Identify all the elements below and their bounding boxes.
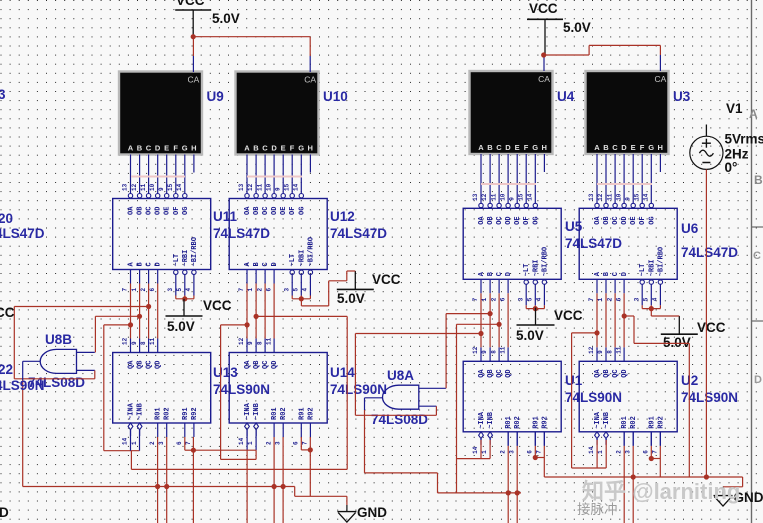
U14 pin 12 (QA)	[238, 337, 252, 369]
U11 pin 15 (OF)	[167, 183, 181, 215]
U6 pin 4 (~BI/RBO)	[652, 247, 666, 305]
U5 pin 9 (OE)	[508, 197, 522, 225]
U1 pin 3 (R02)	[508, 416, 522, 454]
U14 pin 14 (~INA)	[238, 402, 252, 445]
U12 pin 7 (A)	[238, 262, 252, 292]
junction U12 tie	[299, 296, 304, 301]
wire CA anode	[659, 45, 661, 55]
U5 pin 15 (OF)	[518, 193, 532, 225]
GND ground symbol	[337, 505, 387, 522]
svg-text:CA: CA	[654, 74, 666, 84]
svg-text:OA: OA	[244, 206, 252, 215]
U11 pin 10 (OD)	[149, 183, 163, 215]
U12 pin 3 (~LT)	[283, 254, 297, 296]
wire U1 R91/R92 to bus	[535, 432, 544, 477]
U14 pin 6 (R91)	[293, 407, 307, 445]
U13 pin 6 (R91)	[176, 407, 190, 445]
svg-text:E: E	[164, 144, 169, 153]
U12 pin 2 (C)	[256, 262, 270, 291]
wire QC net to U8B lower input	[14, 307, 148, 379]
U11 pin 4 (~BI/RBO)	[185, 237, 199, 295]
junction U14 QA column	[245, 322, 250, 327]
svg-text:10: 10	[265, 183, 272, 191]
svg-text:F: F	[173, 144, 178, 153]
U6 pin 14 (OG)	[643, 193, 657, 225]
U12 pin 1 (B)	[247, 262, 261, 292]
U8B output stub	[23, 360, 41, 362]
U11 pin 6 (D)	[149, 262, 163, 291]
svg-text:~BI/RBO: ~BI/RBO	[191, 237, 199, 266]
junction R91 U2	[649, 456, 654, 461]
svg-text:CA: CA	[304, 75, 316, 85]
wires display outputs to decoder	[597, 154, 660, 203]
U2 pin 3 (R02)	[624, 416, 638, 454]
U1 pin 8 (QC)	[490, 347, 504, 378]
U6 pin 15 (OF)	[634, 193, 648, 225]
svg-text:C: C	[496, 143, 502, 152]
svg-text:CA: CA	[187, 75, 199, 85]
wire U14 INA column down	[246, 450, 248, 523]
U11 pin 7 (A)	[122, 262, 136, 292]
svg-text:15: 15	[167, 183, 174, 191]
wire U6 tie to VCC	[651, 308, 679, 317]
wire U6 QD branch to clock bus	[624, 316, 689, 477]
svg-text:OB: OB	[137, 206, 145, 215]
wire U6 QA net to U2 clock inputs	[572, 333, 607, 468]
svg-text:9: 9	[158, 187, 165, 191]
svg-text:OC: OC	[146, 207, 154, 215]
U1 pin 12 (QA)	[472, 346, 486, 378]
U11 pin 1 (B)	[131, 262, 145, 292]
wire U1 QB net to U8A upper input	[446, 314, 490, 389]
junction VCC U9	[191, 34, 196, 39]
U11 pin 11 (OC)	[140, 183, 154, 215]
wire VCC to U9/U10 anodes	[193, 36, 310, 38]
svg-text:B: B	[137, 144, 143, 153]
wire U13 R91/R92 tie	[185, 437, 256, 523]
U2 pin 7 (R92)	[652, 416, 666, 454]
U13 pin 14 (~INA)	[122, 402, 136, 445]
svg-text:12: 12	[131, 183, 138, 191]
U14 pin 3 (R02)	[274, 407, 288, 445]
U12 pin 4 (~BI/RBO)	[302, 237, 316, 295]
svg-text:13: 13	[122, 183, 129, 191]
wire U6 LT/RBI/RBO tie	[642, 305, 660, 308]
svg-text:14: 14	[176, 183, 183, 191]
U6 pin 2 (C)	[606, 272, 620, 301]
junction U6 tie	[649, 306, 654, 311]
U2 pin 14 (~INA)	[588, 411, 602, 454]
svg-text:OF: OF	[289, 207, 297, 215]
VCC power symbol	[166, 298, 232, 334]
junction R02 U1	[515, 490, 520, 495]
svg-text:CA: CA	[538, 74, 550, 84]
U5 pin 1 (B)	[481, 271, 495, 301]
U14 pin 8 (QC)	[256, 339, 270, 370]
svg-text:14: 14	[293, 183, 300, 191]
U8A output stub	[365, 397, 383, 399]
U11 pin 14 (OG)	[176, 183, 190, 215]
svg-text:U11: U11	[213, 209, 238, 224]
junction U2 R02 bus	[631, 474, 636, 479]
svg-text:OA: OA	[128, 206, 136, 215]
svg-text:2: 2	[140, 288, 147, 292]
wire U13 clock feed from U12	[131, 316, 347, 469]
U14 pin 7 (R92)	[302, 407, 316, 445]
U12 pin 5 (~RBI)	[293, 250, 307, 296]
U14 pin 1 (~INB)	[247, 402, 261, 445]
wires display outputs to decoder	[481, 154, 544, 203]
svg-text:U4: U4	[557, 89, 575, 104]
U12 pin 6 (D)	[265, 262, 279, 291]
svg-text:C: C	[146, 262, 154, 266]
svg-text:F: F	[640, 143, 645, 152]
svg-text:OF: OF	[173, 207, 181, 215]
U13 pin 8 (QC)	[140, 339, 154, 370]
wire U11 tie to VCC	[184, 297, 186, 299]
svg-text:7: 7	[122, 288, 129, 292]
svg-text:3: 3	[167, 288, 174, 292]
svg-text:~LT: ~LT	[173, 254, 181, 267]
svg-text:H: H	[191, 144, 196, 153]
svg-text:OE: OE	[164, 207, 172, 215]
junction U11 tie	[182, 296, 187, 301]
U11 pin 13 (OA)	[122, 183, 136, 215]
svg-text:H: H	[657, 143, 662, 152]
U6 pin 13 (OA)	[588, 193, 602, 225]
junction U1 QA column	[478, 331, 483, 336]
U6 pin 7 (A)	[588, 271, 602, 301]
decoder U6 74LS47D	[579, 203, 677, 279]
junction R01 U1	[506, 490, 511, 495]
wire V1 to ground bus	[544, 170, 742, 496]
wire U1 U2 clock stubs	[481, 439, 606, 440]
GND ground symbol	[714, 490, 763, 506]
wires BCD bus decoder to counter	[247, 284, 274, 339]
seven-segment display U9	[119, 72, 202, 155]
U11 pin 2 (C)	[140, 262, 154, 291]
junction U5 tie	[533, 306, 538, 311]
wire CA anode	[543, 54, 545, 56]
U2 pin 2 (R01)	[615, 416, 629, 454]
U5 pin 12 (OB)	[481, 193, 495, 225]
junction VCC U4	[541, 52, 546, 57]
U6 pin 1 (B)	[597, 271, 611, 301]
U6 pin 6 (D)	[615, 272, 629, 301]
U11 pin 5 (~RBI)	[176, 250, 190, 296]
svg-text:OG: OG	[182, 207, 190, 215]
svg-text:U9: U9	[207, 89, 224, 104]
svg-text:OD: OD	[155, 207, 163, 215]
counter U2 74LS90N	[579, 361, 677, 432]
U2 pin 9 (QB)	[597, 347, 611, 378]
svg-text:D: D	[271, 144, 277, 153]
U5 pin 11 (OC)	[490, 193, 504, 225]
U2 pin 6 (R91)	[643, 416, 657, 454]
wire crossing tint	[131, 177, 652, 185]
U12 pin 12 (OB)	[247, 183, 261, 215]
wire U12 LT/RBI/RBO tie	[292, 296, 310, 299]
junction U5 QC column	[497, 322, 502, 327]
wire U12 tie staircase to VCC	[301, 271, 355, 306]
svg-text:D: D	[155, 144, 161, 153]
U5 pin 10 (OD)	[499, 193, 513, 225]
U5 pin 6 (D)	[499, 272, 513, 301]
svg-text:C: C	[753, 250, 761, 262]
svg-text:E: E	[281, 144, 286, 153]
VCC power symbol	[175, 0, 240, 37]
svg-text:C: C	[262, 144, 268, 153]
seven-segment display U4	[470, 71, 553, 154]
svg-text:13: 13	[238, 183, 245, 191]
counter U1 74LS90N	[463, 361, 561, 432]
U6 pin 5 (~RBI)	[643, 259, 657, 305]
U6 pin 11 (OC)	[606, 193, 620, 225]
decoder U12 74LS47D	[229, 194, 327, 270]
svg-text:H: H	[307, 144, 312, 153]
svg-text:U10: U10	[323, 89, 348, 104]
U1 pin 7 (R92)	[536, 416, 550, 454]
AC source V1	[690, 125, 723, 170]
U5 pin 4 (~BI/RBO)	[536, 247, 550, 305]
wire U1 QA net to U8A lower input	[355, 334, 481, 416]
U2 pin 12 (QA)	[588, 346, 602, 378]
wire U2 R01/R02 columns	[624, 432, 633, 523]
wires display outputs to decoder	[247, 155, 310, 194]
wire U14 R01/R02 columns	[274, 437, 283, 523]
U14 pin 11 (QD)	[265, 337, 279, 369]
svg-text:F: F	[290, 144, 295, 153]
junction U1 QB column	[488, 311, 493, 316]
wire U14 R91/R92	[301, 437, 310, 496]
svg-text:OG: OG	[298, 207, 306, 215]
wire U8B output to reset bus	[23, 361, 295, 486]
svg-text:F: F	[524, 143, 529, 152]
AND gate U8B 74LS08D	[40, 349, 76, 373]
U1 pin 6 (R91)	[527, 416, 541, 454]
decoder U5 74LS47D	[463, 203, 561, 279]
U12 pin 9 (OE)	[274, 187, 288, 215]
wire U5 LT/RBI/RBO tie	[526, 305, 544, 308]
U13 pin 9 (QB)	[131, 339, 145, 370]
U5 pin 13 (OA)	[472, 193, 486, 225]
U13 pin 1 (~INB)	[131, 402, 145, 445]
U1 pin 2 (R01)	[499, 416, 513, 454]
U11 pin 9 (OE)	[158, 187, 172, 215]
junction R91 U1	[533, 455, 538, 460]
wire U1 R01/R02 columns	[508, 432, 517, 523]
AND gate U8A 74LS08D	[383, 385, 419, 409]
U8A input stub bottom	[419, 405, 437, 407]
svg-text:A: A	[594, 143, 600, 152]
svg-text:74LS47D: 74LS47D	[213, 226, 270, 241]
wires BCD bus decoder to counter	[597, 293, 624, 347]
wires BCD bus decoder to counter	[131, 284, 158, 339]
svg-text:11: 11	[256, 183, 263, 191]
svg-text:B: B	[487, 143, 493, 152]
junction QB column	[137, 314, 142, 319]
junction R92 U14	[308, 447, 313, 452]
svg-text:A: A	[244, 144, 250, 153]
U5 pin 2 (C)	[490, 272, 504, 301]
U14 pin 9 (QB)	[247, 339, 261, 370]
U2 pin 8 (QC)	[606, 347, 620, 378]
svg-text:D: D	[155, 262, 163, 266]
U6 pin 3 (~LT)	[634, 264, 648, 306]
junction R92 U13	[191, 448, 196, 453]
svg-text:E: E	[631, 143, 636, 152]
wire left bus to GND	[295, 487, 347, 512]
svg-text:5: 5	[176, 288, 183, 292]
svg-text:~RBI: ~RBI	[182, 250, 190, 267]
svg-text:OD: OD	[271, 207, 279, 215]
junction U12 B column	[254, 314, 259, 319]
U8B input stub top	[77, 351, 95, 353]
svg-text:A: A	[478, 143, 484, 152]
svg-text:G: G	[648, 143, 654, 152]
svg-text:C: C	[146, 144, 152, 153]
wire U2 R91/R92	[651, 432, 660, 477]
svg-text:12: 12	[247, 183, 254, 191]
U12 pin 15 (OF)	[283, 183, 297, 215]
U8B input stub bottom	[77, 369, 95, 371]
U6 pin 12 (OB)	[597, 193, 611, 225]
svg-text:G: G	[182, 144, 188, 153]
svg-text:OB: OB	[253, 206, 261, 215]
wires BCD bus decoder to counter	[481, 293, 508, 347]
U13 pin 3 (R02)	[158, 407, 172, 445]
U11 pin 12 (OB)	[131, 183, 145, 215]
svg-text:9: 9	[274, 187, 281, 191]
wire U11 LT/RBI/RBO tie	[176, 296, 194, 299]
U11 pin 3 (~LT)	[167, 254, 181, 296]
svg-text:H: H	[541, 143, 546, 152]
U12 pin 11 (OC)	[256, 183, 270, 215]
svg-text:1: 1	[131, 288, 138, 292]
junction R02 U13	[164, 484, 169, 489]
svg-text:G: G	[298, 144, 304, 153]
svg-text:D: D	[621, 143, 627, 152]
U12 pin 13 (OA)	[238, 183, 252, 215]
U12 pin 10 (OD)	[265, 183, 279, 215]
U13 pin 2 (R01)	[149, 407, 163, 445]
svg-text:U3: U3	[673, 89, 691, 104]
VCC power symbol	[516, 308, 583, 343]
svg-text:B: B	[603, 143, 609, 152]
svg-text:A: A	[128, 144, 134, 153]
wire QB net to U8B upper input	[95, 316, 139, 352]
wire U5 QC net to U1 clock inputs	[457, 324, 500, 493]
wire CA anode	[192, 37, 194, 56]
svg-text:B: B	[253, 144, 259, 153]
U13 pin 7 (R92)	[185, 407, 199, 445]
U6 pin 9 (OE)	[624, 197, 638, 225]
U5 pin 3 (~LT)	[518, 264, 532, 306]
junction QA column	[128, 322, 133, 327]
junction R02 U14	[281, 484, 286, 489]
U2 pin 1 (~INB)	[597, 411, 611, 454]
U5 pin 14 (OG)	[527, 193, 541, 225]
svg-text:G: G	[532, 143, 538, 152]
wire U8A output to right reset net	[365, 398, 522, 493]
U1 pin 1 (~INB)	[481, 411, 495, 454]
U2 pin 11 (QD)	[615, 346, 629, 378]
seven-segment display U3	[586, 71, 669, 154]
counter U13 74LS90N	[113, 353, 211, 424]
U1 pin 11 (QD)	[499, 346, 513, 378]
svg-text:C: C	[612, 143, 618, 152]
counter U14 74LS90N	[229, 353, 327, 424]
svg-text:D: D	[754, 374, 762, 386]
U1 pin 14 (~INA)	[472, 411, 486, 454]
wire U13 R01/R02 columns	[158, 437, 167, 523]
VCC power symbol	[337, 271, 401, 306]
junction V1 bus	[704, 474, 709, 479]
wire QA net to U13 clock inputs	[104, 325, 140, 451]
svg-text:10: 10	[149, 183, 156, 191]
U5 pin 7 (A)	[472, 271, 486, 301]
decoder U11 74LS47D	[113, 194, 211, 270]
U12 pin 14 (OG)	[293, 183, 307, 215]
wire CA anode	[309, 37, 311, 56]
VCC power symbol	[527, 1, 591, 55]
svg-text:11: 11	[140, 183, 147, 191]
junction R01 U13	[155, 484, 160, 489]
U6 pin 10 (OD)	[615, 193, 629, 225]
svg-text:OC: OC	[262, 207, 270, 215]
svg-text:4: 4	[185, 288, 192, 292]
junction U6 QA column	[594, 330, 599, 335]
VCC power symbol	[661, 316, 726, 350]
junction U6 QD column	[622, 313, 627, 318]
wire U14 QA to U14 clock inputs	[221, 325, 257, 460]
svg-text:OE: OE	[280, 207, 288, 215]
U13 pin 11 (QD)	[149, 337, 163, 369]
svg-text:D: D	[505, 143, 511, 152]
U1 pin 9 (QB)	[481, 347, 495, 378]
svg-text:A: A	[749, 107, 758, 121]
junction QC column	[146, 304, 151, 309]
junction R01 U14	[272, 484, 277, 489]
svg-text:15: 15	[283, 183, 290, 191]
svg-text:E: E	[515, 143, 520, 152]
wires display outputs to decoder	[131, 155, 194, 194]
wire VCC to U4/U3 anodes	[544, 45, 661, 55]
U5 pin 5 (~RBI)	[527, 259, 541, 305]
U8A input stub top	[419, 387, 446, 389]
U14 pin 2 (R01)	[265, 407, 279, 445]
svg-text:6: 6	[149, 288, 156, 292]
U13 pin 12 (QA)	[122, 337, 136, 369]
svg-text:B: B	[754, 173, 763, 187]
seven-segment display U10	[236, 72, 319, 155]
